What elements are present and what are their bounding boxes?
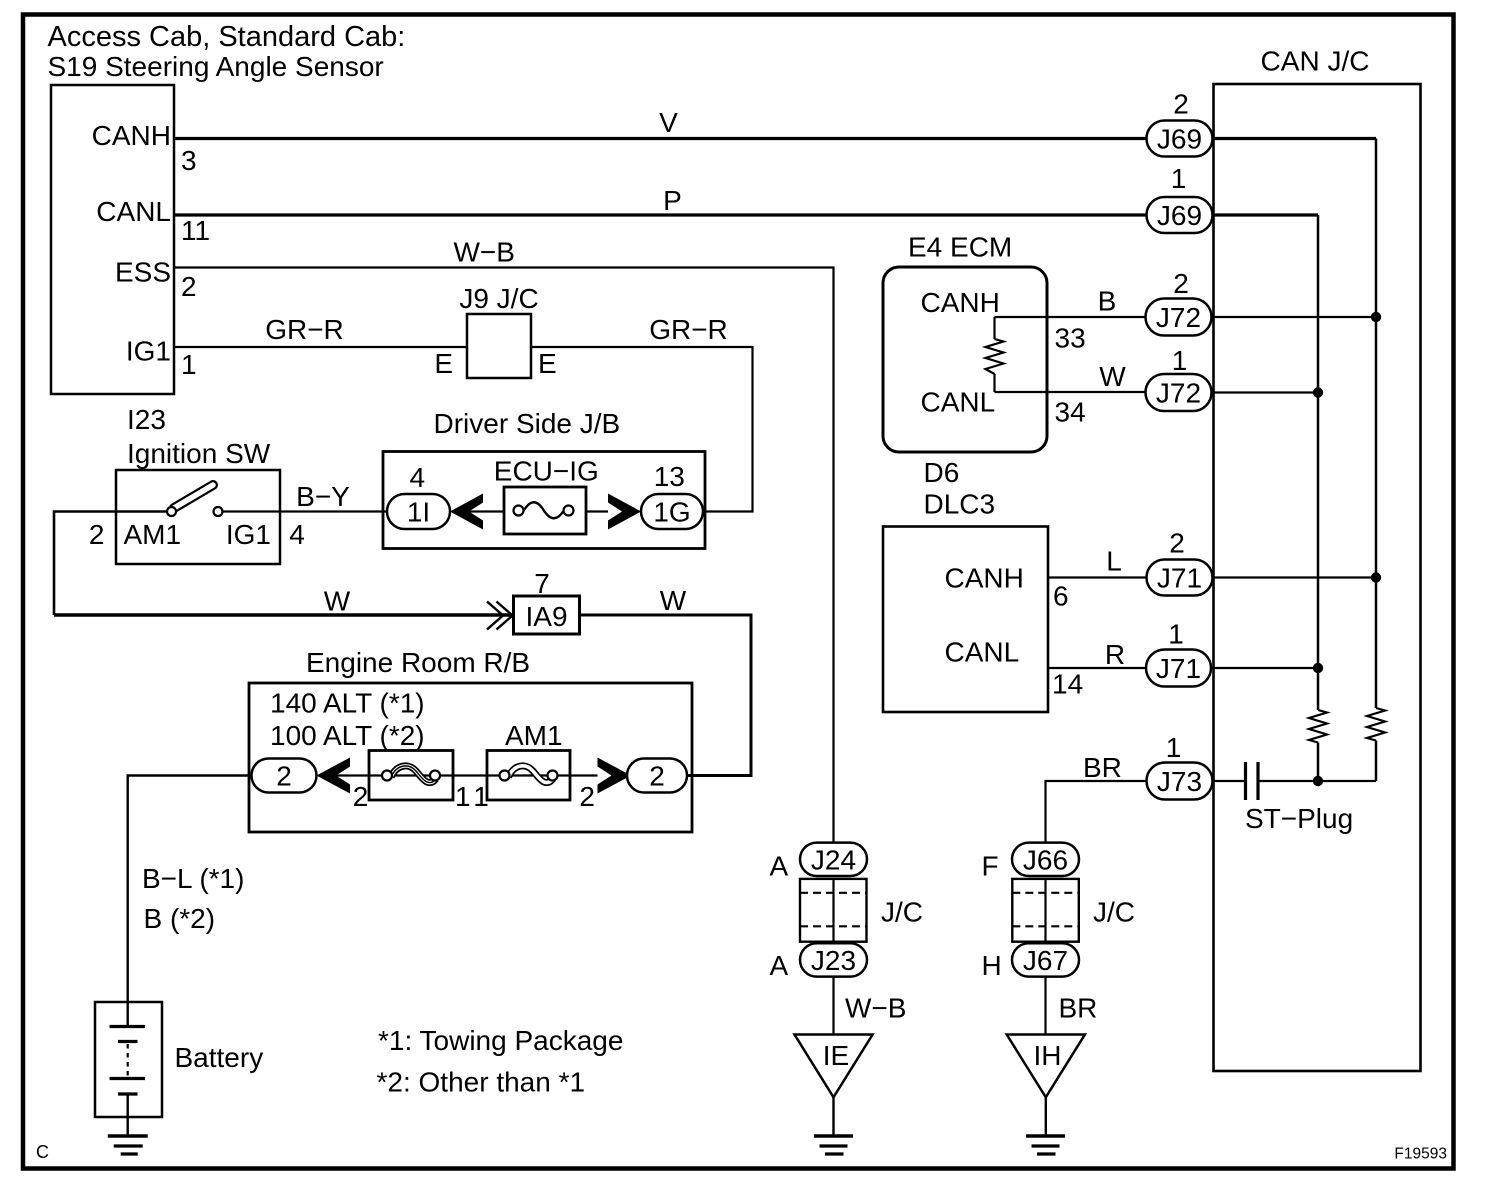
svg-text:R: R (1105, 639, 1125, 670)
svg-text:IE: IE (823, 1040, 849, 1071)
svg-text:B−Y: B−Y (296, 481, 350, 512)
svg-text:J/C: J/C (1093, 897, 1135, 928)
svg-text:W−B: W−B (845, 993, 906, 1024)
svg-text:ECU−IG: ECU−IG (494, 456, 599, 487)
connector J69 pin2 oval (1147, 121, 1213, 157)
svg-text:P: P (663, 185, 682, 216)
svg-text:1: 1 (455, 781, 471, 812)
switch contact left (167, 507, 176, 516)
wire W ECM CANL to J72 (995, 391, 1148, 393)
svg-text:J66: J66 (1023, 844, 1068, 875)
wire J73 to capacitor (1213, 780, 1245, 782)
connector J72 pin2 oval (1146, 299, 1212, 336)
svg-text:C: C (36, 1142, 49, 1162)
svg-text:J69: J69 (1157, 200, 1202, 231)
svg-text:*1: Towing Package: *1: Towing Package (378, 1025, 623, 1056)
svg-text:1: 1 (1171, 163, 1187, 194)
wire J23 to IE (832, 977, 834, 1035)
svg-text:J72: J72 (1156, 302, 1201, 333)
connector J71 pin1 oval (1146, 650, 1211, 687)
wire R DLC3 to J71 (1048, 667, 1147, 669)
resistor CANL bus zigzag (1309, 710, 1327, 743)
arrow right at 1G (608, 494, 641, 530)
resistor CANH bus zigzag (1367, 708, 1385, 741)
svg-text:2: 2 (353, 781, 369, 812)
connector 2 oval right (627, 759, 687, 793)
fuse 140/100 ALT box (369, 751, 453, 801)
wire battery feed left (128, 776, 252, 1028)
wire IE to ground (832, 1097, 834, 1136)
arrow left at 1I (450, 494, 483, 530)
svg-text:4: 4 (410, 462, 426, 493)
connector J71 pin2 oval (1147, 560, 1213, 596)
wire J71-1 to CANL bus (1211, 667, 1318, 669)
svg-text:Ignition SW: Ignition SW (127, 438, 271, 469)
svg-text:J69: J69 (1157, 124, 1202, 155)
resistor ECM zigzag (986, 339, 1004, 374)
wire P inside CAN J/C (1212, 213, 1318, 216)
svg-text:BR: BR (1083, 752, 1122, 783)
connector IA9 box (514, 596, 580, 634)
svg-text:IG1: IG1 (126, 336, 171, 367)
svg-text:2: 2 (181, 271, 197, 302)
fuse AM1 element (505, 774, 553, 776)
node dot CANH bus J72 (1371, 312, 1381, 322)
switch lever (174, 485, 213, 508)
svg-text:GR−R: GR−R (649, 314, 728, 345)
wire capacitor to buses (1260, 780, 1377, 782)
svg-text:J71: J71 (1157, 563, 1202, 594)
svg-text:1: 1 (1172, 345, 1188, 376)
svg-text:2: 2 (1173, 89, 1189, 120)
wire arrow to fuse1 (335, 774, 383, 776)
wire J72-2 to CANH bus (1212, 316, 1377, 318)
wire CANL bus to ST-plug (1317, 743, 1320, 782)
svg-text:CANH: CANH (921, 287, 1000, 318)
ground triangle IH (1007, 1035, 1085, 1098)
svg-text:E: E (538, 348, 557, 379)
svg-text:Engine Room R/B: Engine Room R/B (306, 647, 530, 678)
svg-text:DLC3: DLC3 (924, 489, 996, 520)
svg-text:A: A (770, 851, 789, 882)
arrow right engine room (598, 758, 632, 794)
battery box (95, 1002, 162, 1117)
svg-text:GR−R: GR−R (265, 314, 344, 345)
node dot CANH bus J71 (1371, 572, 1381, 582)
fuse AM1 box (487, 751, 570, 801)
svg-text:3: 3 (181, 145, 197, 176)
svg-text:L: L (1106, 546, 1122, 577)
fuse ECU-IG box (504, 487, 586, 534)
ECU E4 ECM box (883, 267, 1047, 452)
wire L DLC3 to J71 (1048, 576, 1147, 578)
svg-text:CAN J/C: CAN J/C (1261, 46, 1370, 77)
connector J73 oval (1147, 763, 1213, 800)
ground IH (1026, 1134, 1065, 1137)
svg-text:1I: 1I (407, 497, 430, 528)
svg-text:2: 2 (276, 761, 292, 792)
svg-text:S19 Steering Angle Sensor: S19 Steering Angle Sensor (48, 51, 384, 82)
wire V inside CAN J/C (1212, 137, 1376, 140)
svg-text:CANH: CANH (92, 120, 171, 151)
svg-text:CANH: CANH (945, 563, 1024, 594)
junction J/C block right (1012, 879, 1079, 942)
wire J71-2 to CANH bus (1213, 576, 1377, 578)
wire BR J66 to J73 (1046, 781, 1147, 843)
svg-text:J67: J67 (1023, 945, 1068, 976)
svg-text:IA9: IA9 (525, 601, 567, 632)
svg-text:B: B (1098, 286, 1117, 317)
svg-text:J9 J/C: J9 J/C (459, 283, 538, 314)
connector S19 steering angle sensor box (51, 85, 174, 394)
svg-text:IG1: IG1 (226, 519, 271, 550)
svg-text:AM1: AM1 (124, 519, 182, 550)
svg-text:W: W (660, 585, 687, 616)
svg-text:Access Cab, Standard Cab:: Access Cab, Standard Cab: (48, 21, 406, 53)
connector J67 oval (1012, 943, 1079, 976)
junction J/C block left (800, 879, 867, 942)
svg-text:33: 33 (1055, 323, 1086, 354)
svg-text:AM1: AM1 (505, 720, 563, 751)
resistor ECM terminating stub (993, 317, 995, 339)
svg-text:ST−Plug: ST−Plug (1245, 803, 1353, 834)
wire IG1 GR-R to J9 (174, 346, 467, 348)
wire W right of IA9 (580, 615, 751, 776)
svg-text:14: 14 (1052, 669, 1083, 700)
svg-text:B−L (*1): B−L (*1) (142, 863, 244, 894)
wire fuse2 to arrow (558, 774, 600, 776)
wire fuse1 to fuse2 (440, 774, 500, 776)
svg-text:2: 2 (1169, 528, 1185, 559)
connector J72 pin1 oval (1146, 374, 1212, 411)
svg-text:F19593: F19593 (1394, 1146, 1447, 1163)
svg-text:J24: J24 (811, 844, 856, 875)
wire IG1 contact to box edge (223, 510, 281, 512)
wire J72-1 to CANL bus (1212, 391, 1319, 393)
node dot CANL bus J71 (1313, 663, 1323, 673)
svg-text:W−B: W−B (454, 237, 515, 268)
svg-text:BR: BR (1059, 993, 1098, 1024)
svg-text:4: 4 (289, 519, 305, 550)
wire CANH V to J69 (174, 137, 1147, 140)
block Driver Side J/B box (383, 452, 705, 549)
connector 1I oval (387, 494, 450, 529)
wire AM1 pin2 left (54, 512, 167, 616)
wire battery to ground (126, 1094, 128, 1136)
svg-text:W: W (1099, 361, 1126, 392)
connector J69 pin1 oval (1147, 197, 1213, 233)
svg-text:F: F (982, 851, 999, 882)
wire CANL P to J69 (174, 213, 1147, 216)
switch contact right (214, 507, 223, 516)
splice double chevron (487, 602, 513, 630)
svg-text:100 ALT (*2): 100 ALT (*2) (270, 720, 425, 751)
svg-text:J72: J72 (1156, 378, 1201, 409)
wire J67 to IH (1044, 977, 1046, 1035)
capacitor ST-Plug (1244, 762, 1247, 800)
fusible link element (387, 774, 435, 776)
arrow left engine room (317, 758, 351, 794)
svg-text:6: 6 (1053, 581, 1069, 612)
wire B ECM CANH to J72 (995, 316, 1148, 318)
svg-text:1: 1 (1166, 732, 1182, 763)
svg-text:J/C: J/C (881, 897, 923, 928)
svg-text:7: 7 (534, 568, 550, 599)
switch I23 ignition SW box (116, 470, 280, 564)
svg-text:J71: J71 (1156, 653, 1201, 684)
connector 2 oval left (252, 759, 317, 793)
svg-text:34: 34 (1055, 397, 1086, 428)
wire CANH bus vertical (1375, 139, 1378, 709)
svg-text:CANL: CANL (96, 196, 171, 227)
svg-text:D6: D6 (924, 457, 960, 488)
wire IH to ground (1045, 1097, 1047, 1136)
svg-text:13: 13 (654, 461, 685, 492)
wire CANL bus vertical (1317, 215, 1320, 710)
svg-text:IH: IH (1034, 1040, 1062, 1071)
connector J23 oval (800, 943, 867, 976)
junction CAN J/C box (1214, 84, 1421, 1071)
ground triangle IE (795, 1035, 873, 1098)
svg-text:1: 1 (181, 349, 197, 380)
node dot CANL bus J72 (1313, 387, 1323, 397)
svg-text:2: 2 (89, 519, 105, 550)
junction J9 J/C box (467, 314, 531, 378)
node dot ST-plug CANL bus (1313, 776, 1323, 786)
svg-text:2: 2 (649, 761, 665, 792)
svg-text:J23: J23 (811, 945, 856, 976)
connector 1G oval (641, 494, 703, 529)
wire B-Y to driver side J/B (280, 510, 388, 512)
battery plates (110, 1025, 146, 1028)
ground IE (814, 1134, 853, 1137)
wire ESS W-B (174, 268, 834, 844)
svg-text:1: 1 (1168, 619, 1184, 650)
connector J24 oval (800, 843, 867, 876)
connector DLC3 box (883, 527, 1048, 713)
svg-text:A: A (770, 950, 789, 981)
wire CANH bus to ST-plug (1375, 741, 1378, 782)
svg-text:140 ALT (*1): 140 ALT (*1) (270, 688, 425, 719)
svg-text:CANL: CANL (921, 387, 996, 418)
svg-text:*2: Other than *1: *2: Other than *1 (377, 1067, 586, 1098)
wire fuse to arrow (586, 510, 610, 512)
fuse ECU-IG element (524, 502, 564, 518)
svg-text:2: 2 (1173, 268, 1189, 299)
ground battery (108, 1134, 148, 1137)
svg-text:Battery: Battery (175, 1042, 264, 1073)
svg-text:Driver Side J/B: Driver Side J/B (434, 408, 621, 439)
svg-text:1G: 1G (653, 497, 690, 528)
svg-text:I23: I23 (127, 404, 166, 435)
svg-text:H: H (982, 950, 1002, 981)
svg-text:W: W (324, 586, 351, 617)
block Engine Room R/B box (249, 683, 692, 832)
svg-text:V: V (659, 107, 678, 138)
wire GR-R from J9 to 1G (531, 347, 753, 512)
svg-text:11: 11 (181, 215, 210, 246)
svg-text:ESS: ESS (115, 257, 171, 288)
svg-text:B (*2): B (*2) (144, 903, 216, 934)
wire W bold from AM1 to IA9 (54, 613, 514, 616)
svg-text:E4 ECM: E4 ECM (908, 232, 1012, 263)
wire arrow to fuse (469, 510, 504, 512)
svg-text:E: E (434, 348, 453, 379)
svg-text:CANL: CANL (945, 637, 1020, 668)
svg-text:2: 2 (579, 781, 595, 812)
connector J66 oval (1012, 843, 1079, 876)
svg-text:J73: J73 (1157, 766, 1202, 797)
